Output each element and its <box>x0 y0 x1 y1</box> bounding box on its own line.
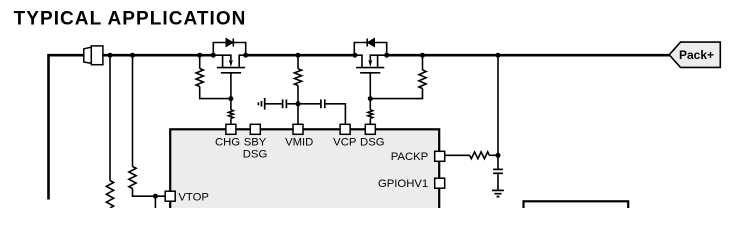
node Q1 drain <box>211 53 216 58</box>
svg-text:DSG: DSG <box>360 136 384 148</box>
resistor R3 (CHG gate pull-up) <box>199 55 201 68</box>
capacitor C3 (PACKP filter) <box>497 155 499 168</box>
node Pack+ flag <box>669 42 720 67</box>
node Q1 gate <box>228 96 233 101</box>
wire: cell tap 2 down <box>132 55 134 166</box>
pin VTOP <box>165 191 175 201</box>
wire: R2 to VTOP pin <box>133 189 166 197</box>
node VMID <box>296 101 301 106</box>
wire: C2 to VCP pin <box>326 104 346 125</box>
wire: VTOP junction stub down <box>154 196 156 208</box>
diode D1 (Q1 body diode) <box>213 43 226 56</box>
transistor Q2 (DSG FET) <box>354 55 386 98</box>
node PACKP RC <box>496 153 501 158</box>
node PACKP sense <box>496 53 501 58</box>
svg-text:GPIOHV1: GPIOHV1 <box>378 178 428 190</box>
svg-text:PACKP: PACKP <box>391 151 428 163</box>
pin GPIOHV1 <box>435 178 445 188</box>
wire: rail down to PACKP node <box>497 55 499 155</box>
node DSG gate pullup <box>420 53 425 58</box>
resistor R2 (VTOP input) <box>129 167 136 189</box>
wire: rail DSG FET to Pack+ <box>387 54 670 57</box>
node Q1 source <box>243 53 248 58</box>
svg-text:VMID: VMID <box>285 136 313 148</box>
ground (PACKP cap) <box>492 190 504 196</box>
fuse F1 <box>84 47 92 63</box>
node CHG gate pullup <box>197 53 202 58</box>
node Q2 source <box>352 53 357 58</box>
capacitor C2 (VMID to VCP) <box>298 103 320 105</box>
svg-text:CHG: CHG <box>215 136 240 148</box>
pin DSG <box>365 124 375 134</box>
svg-text:TYPICAL APPLICATION: TYPICAL APPLICATION <box>14 8 247 29</box>
wire: rail between FETs <box>246 54 355 57</box>
diode D2 (Q2 body diode) <box>354 43 367 56</box>
svg-text:VCP: VCP <box>333 136 356 148</box>
pin PACKP <box>435 151 445 161</box>
node Q2 drain <box>384 53 389 58</box>
pin VCP <box>340 124 350 134</box>
svg-text:SBY: SBY <box>244 136 267 148</box>
svg-text:VTOP: VTOP <box>178 191 209 203</box>
resistor R6 (DSG gate series) <box>369 99 371 110</box>
wire: rail fuse to CHG FET <box>103 54 214 57</box>
resistor R4 (CHG gate series) <box>230 99 232 110</box>
IC U1 (battery monitor) <box>170 129 439 219</box>
ground (sideways, VMID cap) <box>258 98 264 110</box>
capacitor C1 (VMID to gnd) <box>265 103 282 105</box>
pin VMID <box>293 124 303 134</box>
svg-text:DSG: DSG <box>243 149 267 161</box>
pin CHG <box>226 124 236 134</box>
resistor R1 (cell input, cut off) <box>106 181 113 209</box>
wire: Pack+ rail left corner and vertical <box>49 55 84 199</box>
resistor R8 (PACKP series) <box>445 154 470 156</box>
pin SBY DSG <box>250 124 260 134</box>
node VMID res <box>296 53 301 58</box>
wire: cell tap 1 down <box>109 55 111 180</box>
svg-text:Pack+: Pack+ <box>679 48 714 62</box>
resistor R7 (DSG gate pull-up) <box>422 55 424 70</box>
transistor Q1 (CHG FET) <box>213 55 245 98</box>
node cell tap 1 <box>108 53 113 58</box>
node cell tap 2 <box>130 53 135 58</box>
node Q2 gate <box>368 96 373 101</box>
node VTOP junction <box>153 194 158 199</box>
resistor R5 (VMID) <box>297 55 299 68</box>
connector J1 box <box>524 201 629 221</box>
